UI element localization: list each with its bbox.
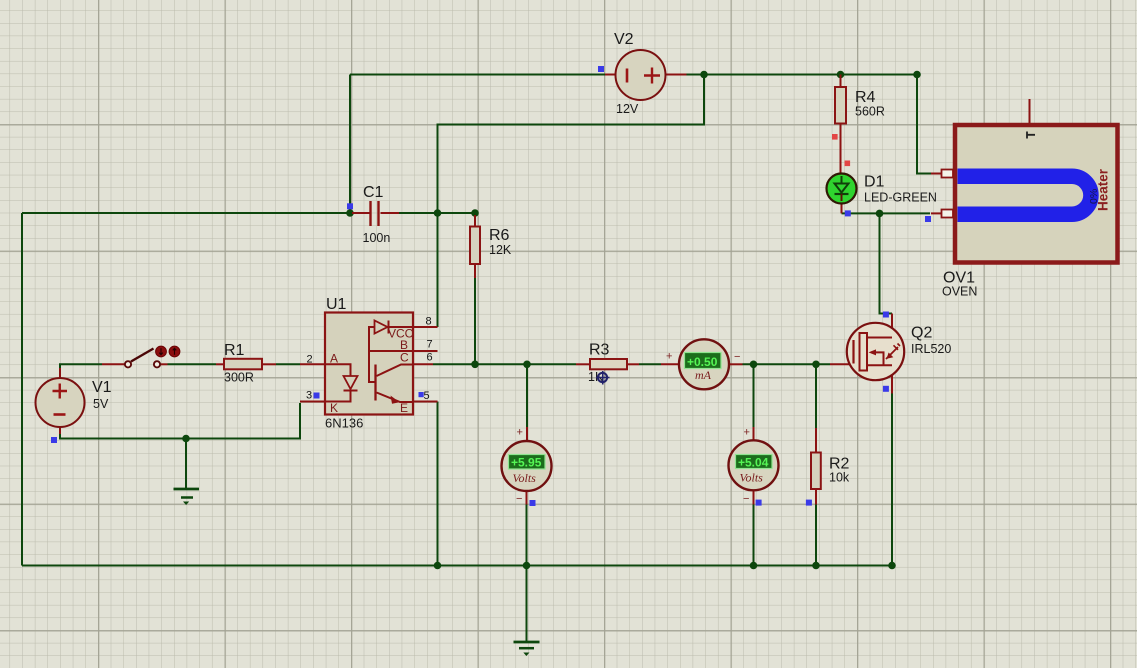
voltmeter VM2	[729, 427, 779, 506]
svg-text:8: 8	[426, 316, 432, 328]
resistor R6	[470, 215, 512, 278]
wire left vertical rail	[21, 213, 23, 566]
svg-text:+: +	[517, 427, 523, 439]
wire voltmeter1 bottom to rail and ground	[526, 505, 528, 642]
svg-text:Volts: Volts	[740, 471, 764, 485]
wire voltmeter2 bottom to rail	[753, 505, 755, 566]
blue state square V2 left pin	[598, 66, 604, 72]
wire U1 pin3 down and left to V1 bottom	[60, 403, 300, 439]
blue state square U1 pin5	[419, 392, 424, 397]
blue state square U1 pin3	[314, 393, 320, 399]
blue state square Q2 source	[883, 386, 889, 392]
wire D1 cathode row to oven pin2	[842, 212, 931, 214]
svg-text:+: +	[666, 351, 672, 363]
junction node R2 top	[812, 361, 820, 369]
wire node to voltmeter2 top	[753, 364, 755, 427]
svg-text:−: −	[734, 351, 740, 363]
resistor R1	[216, 342, 276, 385]
wire node to R2 top	[815, 364, 817, 428]
svg-text:100n: 100n	[363, 231, 391, 245]
junction node rail at voltmeter2	[750, 562, 758, 570]
switch SW interactive	[102, 346, 180, 367]
svg-text:12K: 12K	[489, 243, 512, 257]
resistor R3	[576, 342, 639, 385]
wire top-left from V2 left pin to corner	[350, 74, 605, 76]
svg-text:Heater: Heater	[1096, 168, 1111, 211]
battery V1	[36, 368, 112, 434]
junction node voltmeter1 top	[523, 361, 531, 369]
svg-text:A: A	[330, 351, 338, 365]
svg-text:IRL520: IRL520	[911, 342, 951, 356]
wire R3 to ammeter	[639, 363, 661, 365]
wire top rail corner down to oven pin1	[917, 75, 931, 174]
wire from node at V2 right down and left to U1 VCC column	[438, 75, 705, 328]
blue state square Q2 drain	[883, 312, 889, 318]
wire Q2 source to rail end	[891, 394, 893, 566]
wire ammeter to Q2 gate	[743, 363, 831, 365]
svg-text:D1: D1	[864, 174, 885, 191]
wire bottom ground rail	[22, 565, 892, 567]
svg-text:Volts: Volts	[513, 471, 537, 485]
blue state square C1 left	[347, 203, 353, 209]
svg-text:300R: 300R	[224, 371, 254, 385]
capacitor C1	[352, 184, 399, 245]
svg-text:E: E	[400, 401, 408, 415]
svg-text:Q2: Q2	[911, 325, 932, 342]
blue state square voltmeter1 bottom	[530, 500, 536, 506]
svg-text:mA: mA	[695, 368, 712, 382]
oven pin2 stub and box	[931, 210, 953, 218]
blue state square voltmeter2 bottom	[756, 500, 762, 506]
wire node down to Q2 drain	[880, 213, 893, 313]
resistor R4	[835, 75, 885, 175]
svg-text:OVEN: OVEN	[942, 285, 977, 299]
resistor R2	[811, 428, 850, 505]
svg-text:+5.95: +5.95	[511, 456, 542, 470]
svg-text:7: 7	[427, 339, 433, 351]
oven pin1 stub and box	[931, 170, 953, 178]
wire switch to R1	[168, 363, 217, 365]
junction node rail at E column	[434, 562, 442, 570]
svg-text:−: −	[743, 493, 749, 505]
wire ground branch under V1	[185, 439, 187, 489]
svg-text:C: C	[400, 351, 409, 365]
ground symbol under voltmeter1	[514, 642, 540, 656]
junction node ammeter right	[750, 361, 758, 369]
junction node rail at R2	[812, 562, 820, 570]
svg-text:3: 3	[306, 390, 312, 402]
junction node at oven corner	[913, 71, 921, 79]
svg-text:V2: V2	[614, 31, 634, 48]
svg-text:R1: R1	[224, 342, 245, 359]
oven OV1	[942, 99, 1118, 299]
svg-text:K: K	[330, 401, 338, 415]
svg-text:5: 5	[424, 390, 430, 402]
svg-text:LED-GREEN: LED-GREEN	[864, 191, 937, 205]
mosfet Q2 IRL520	[830, 314, 951, 394]
origin anchor marker of R3 value	[596, 371, 610, 385]
optocoupler U1 6N136	[300, 296, 438, 431]
wire V1 top to switch	[60, 364, 102, 368]
wire R2 bottom to rail	[815, 505, 817, 566]
svg-text:5V: 5V	[93, 397, 109, 411]
blue state square R2 bottom	[806, 500, 812, 506]
wire U1 pin5 E to ground rail	[437, 402, 439, 566]
junction node C1 right at VCC column	[434, 209, 442, 217]
svg-text:6: 6	[427, 352, 433, 364]
junction node V1 ground branch	[182, 435, 190, 443]
ammeter mA	[661, 339, 743, 389]
red state square D1 anode pin	[845, 161, 851, 167]
blue state square D1 cathode wire	[845, 210, 851, 216]
junction node at R4 top	[837, 71, 845, 79]
junction node rail end at Q2 source	[888, 562, 896, 570]
svg-text:+5.04: +5.04	[738, 455, 769, 469]
junction node rail at voltmeter1	[523, 562, 531, 570]
svg-text:R6: R6	[489, 227, 510, 244]
wire R6 bottom to pin6 row	[474, 278, 476, 364]
svg-text:12V: 12V	[616, 102, 639, 116]
wire node to voltmeter1 top	[526, 364, 528, 427]
svg-text:−: −	[516, 493, 522, 505]
blue state square oven pin2	[925, 216, 931, 222]
battery V2	[605, 31, 687, 116]
svg-text:+0.50: +0.50	[687, 355, 718, 369]
svg-text:10k: 10k	[829, 471, 850, 485]
red state square R4 bottom pin	[832, 134, 838, 140]
wire C1 row left segment	[22, 212, 352, 214]
svg-text:U1: U1	[326, 296, 347, 313]
wire R1 to U1 pin2	[276, 363, 300, 365]
svg-text:+: +	[744, 427, 750, 439]
ground symbol under V1	[174, 489, 200, 505]
wire C1 right to R6 node	[399, 212, 475, 214]
junction node R6 top	[471, 209, 479, 217]
svg-text:560R: 560R	[855, 105, 885, 119]
svg-text:R3: R3	[589, 342, 610, 359]
junction node C1 left	[346, 209, 354, 217]
wire pin6 row to R3	[433, 363, 576, 365]
voltmeter VM1	[502, 427, 552, 506]
junction node D1 row	[876, 210, 884, 218]
led D1 LED-GREEN	[827, 174, 937, 214]
blue state square V1 bottom	[51, 437, 57, 443]
svg-text:R4: R4	[855, 89, 876, 106]
junction node at V2 right	[700, 71, 708, 79]
svg-text:V1: V1	[92, 379, 112, 396]
wire top-right from V2 to oven corner	[687, 74, 918, 76]
svg-text:2: 2	[307, 353, 313, 365]
wire vertical from top corner down to C1 row	[349, 75, 351, 214]
svg-text:6N136: 6N136	[325, 416, 363, 431]
svg-text:C1: C1	[363, 184, 384, 201]
junction node R6 bottom row	[471, 361, 479, 369]
